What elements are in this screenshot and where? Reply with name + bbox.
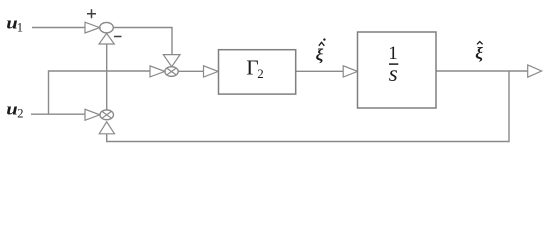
- svg-text:ξ: ξ: [316, 46, 324, 65]
- svg-text:2: 2: [257, 66, 264, 81]
- svg-text:2: 2: [17, 107, 23, 121]
- svg-text:s: s: [389, 61, 398, 86]
- svg-text:ξ: ξ: [475, 44, 483, 63]
- svg-text:u: u: [6, 100, 17, 119]
- svg-text:1: 1: [17, 20, 23, 34]
